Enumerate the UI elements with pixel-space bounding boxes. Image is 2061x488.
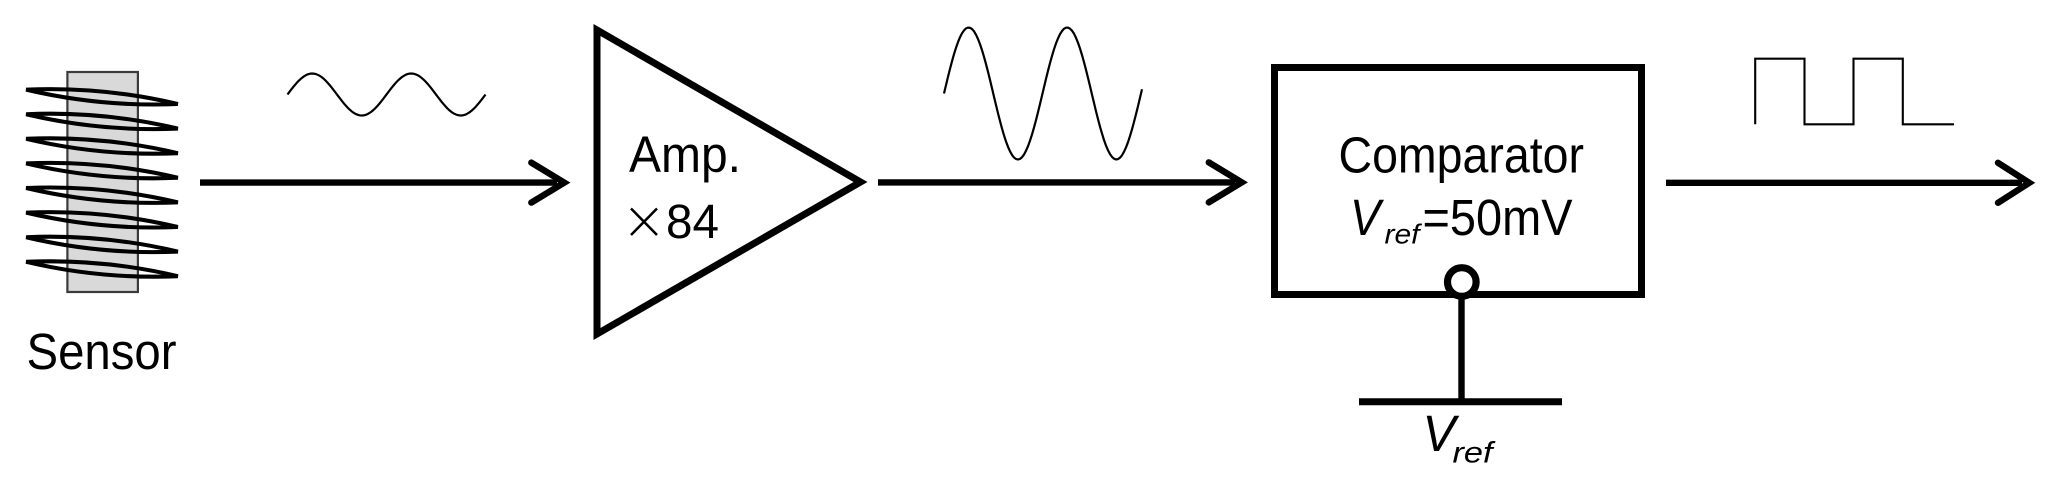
label Vref=50mV (1350, 189, 1573, 250)
svg-text:V: V (1350, 189, 1384, 246)
svg-text:Amp.: Amp. (629, 126, 741, 183)
big sine waveform (944, 28, 1142, 160)
comparator U2 box (1275, 68, 1642, 295)
Vref source bar (1359, 398, 1562, 405)
square waveform (1755, 59, 1954, 125)
svg-text:=50mV: =50mV (1423, 189, 1573, 246)
svg-text:ref: ref (1385, 219, 1423, 250)
sensor L1 core (67, 72, 137, 292)
wire Vref stub (1458, 295, 1464, 399)
pin terminal circle (1448, 268, 1477, 297)
wire input arrow to amplifier (200, 163, 564, 203)
multiply sign (631, 209, 657, 236)
wire amplifier to comparator arrow (878, 162, 1242, 202)
wire output arrow (1666, 163, 2029, 203)
small sine waveform (288, 74, 486, 116)
svg-text:Sensor: Sensor (27, 323, 177, 380)
svg-text:Comparator: Comparator (1339, 127, 1585, 184)
op-amp U1 triangle (597, 30, 861, 334)
sensor L1 coil windings (26, 84, 179, 281)
svg-text:84: 84 (666, 196, 719, 249)
node Vref label (1423, 405, 1496, 470)
svg-text:ref: ref (1453, 437, 1496, 470)
